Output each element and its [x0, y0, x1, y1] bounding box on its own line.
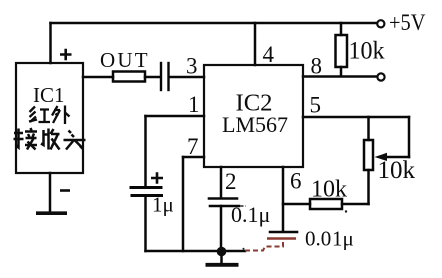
label plus C2	[151, 172, 163, 184]
terminal pin8 out	[377, 73, 384, 80]
capacitor C2 bottom plate	[132, 194, 162, 197]
resistor R2 body	[113, 72, 145, 82]
capacitor C3 bottom plate	[210, 205, 239, 208]
wire ground stub	[220, 251, 223, 264]
capacitor C3 top plate	[209, 197, 237, 200]
wire IC1 plus lead	[49, 23, 52, 63]
resistor R3 10k body	[310, 199, 342, 209]
wire bottom ground rail	[146, 250, 246, 253]
label minus IC1	[60, 189, 70, 192]
wire top rail +5V	[51, 22, 378, 25]
svg-text:10k: 10k	[349, 38, 385, 65]
wire pin8 to terminal	[303, 75, 377, 78]
wiper arrowhead	[375, 153, 388, 161]
wire pin7	[183, 156, 204, 159]
svg-text:2: 2	[225, 169, 237, 194]
ground center bar	[206, 263, 239, 267]
wire OUT from IC1 to R2	[83, 76, 113, 79]
speck under R3	[345, 210, 347, 212]
wire RP bottom stem	[367, 170, 370, 204]
svg-text:10k: 10k	[378, 157, 416, 184]
wire C2 top branch	[144, 116, 147, 186]
wire right branch down to wiper	[408, 117, 411, 157]
wire RP to R3	[342, 203, 369, 206]
resistor R1 10k body	[336, 35, 348, 67]
capacitor C1 right plate	[167, 63, 169, 90]
svg-text:1: 1	[188, 92, 200, 117]
IC1 box	[16, 63, 83, 173]
wire pin4 drop	[254, 23, 257, 65]
svg-text:10k: 10k	[311, 177, 347, 203]
capacitor C4 bottom plate (red)	[267, 237, 296, 240]
label plus IC1	[60, 49, 72, 60]
wire R1 bottom stem	[340, 67, 343, 76]
svg-text:6: 6	[290, 169, 302, 194]
svg-text:5: 5	[310, 93, 322, 118]
svg-text:0.1μ: 0.1μ	[231, 202, 270, 227]
wire R2 to C1	[145, 76, 160, 79]
capacitor C4 top plate	[270, 231, 297, 234]
svg-text:+5V: +5V	[389, 10, 426, 35]
svg-text:LM567: LM567	[222, 112, 288, 137]
speck right of C3 plate	[241, 205, 247, 207]
wire pin2 drop	[220, 167, 223, 197]
svg-text:4: 4	[263, 42, 275, 67]
wire RP top stem	[367, 117, 370, 140]
wire C2 bottom branch	[144, 197, 147, 251]
text 接收头 (drawn strokes)	[14, 128, 86, 150]
svg-text:1μ: 1μ	[332, 227, 354, 251]
text 红外 (drawn strokes)	[29, 106, 70, 125]
wire R1 top stem	[340, 23, 343, 35]
terminal +5V	[377, 20, 384, 27]
svg-text:3: 3	[186, 54, 198, 79]
wire wiper arm	[386, 156, 409, 159]
ground IC1 bar	[36, 211, 67, 215]
potentiometer RP body	[364, 140, 373, 170]
svg-text:8: 8	[311, 54, 323, 79]
wire R3 to pin6 node	[283, 203, 310, 206]
svg-text:7: 7	[187, 134, 199, 159]
wire pin6 drop	[282, 167, 285, 231]
wire C1 to pin3	[170, 76, 205, 79]
wire IC1 minus lead	[49, 173, 52, 212]
svg-text:IC1: IC1	[33, 83, 65, 107]
svg-text:OUT: OUT	[100, 48, 150, 72]
wire red dashed artifact	[245, 240, 283, 251]
capacitor C1 left plate	[160, 63, 162, 90]
wire pin1	[146, 115, 205, 118]
speck on ground rail	[243, 248, 245, 250]
wire pin7 drop	[182, 157, 185, 251]
svg-text:1μ: 1μ	[152, 193, 174, 217]
junction dot ground node	[217, 247, 227, 257]
wire pin5	[303, 116, 409, 119]
capacitor C2 top plate	[131, 186, 161, 189]
svg-text:0.0: 0.0	[305, 227, 331, 251]
wire C3 to ground rail	[220, 206, 223, 251]
IC2 box	[204, 65, 303, 167]
